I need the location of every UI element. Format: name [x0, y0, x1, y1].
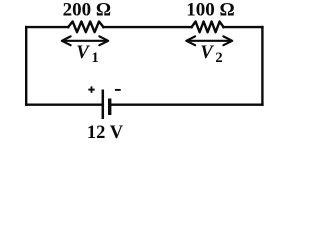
arrow V2 span [186, 36, 232, 45]
wire top-right segment [224, 26, 263, 28]
battery B1 short plate (negative) [108, 99, 111, 116]
resistor R1 [68, 22, 103, 33]
svg-text:V: V [200, 43, 214, 63]
wire right side [261, 27, 263, 105]
battery B1 long plate (positive) [102, 90, 105, 120]
svg-text:200 Ω: 200 Ω [63, 0, 111, 21]
svg-text:V: V [76, 43, 90, 63]
wire bottom-left segment [26, 103, 101, 105]
minus sign [115, 89, 121, 91]
svg-text:12 V: 12 V [87, 123, 124, 143]
wire top-middle segment [103, 26, 191, 28]
svg-text:100 Ω: 100 Ω [186, 0, 234, 21]
wire top-left segment [26, 26, 68, 28]
arrow V1 span [62, 36, 108, 45]
wire left side [25, 27, 27, 105]
plus sign [88, 86, 94, 92]
svg-text:2: 2 [215, 50, 222, 66]
svg-text:1: 1 [92, 50, 99, 66]
wire bottom-right segment [111, 103, 263, 105]
resistor R2 [192, 22, 224, 33]
